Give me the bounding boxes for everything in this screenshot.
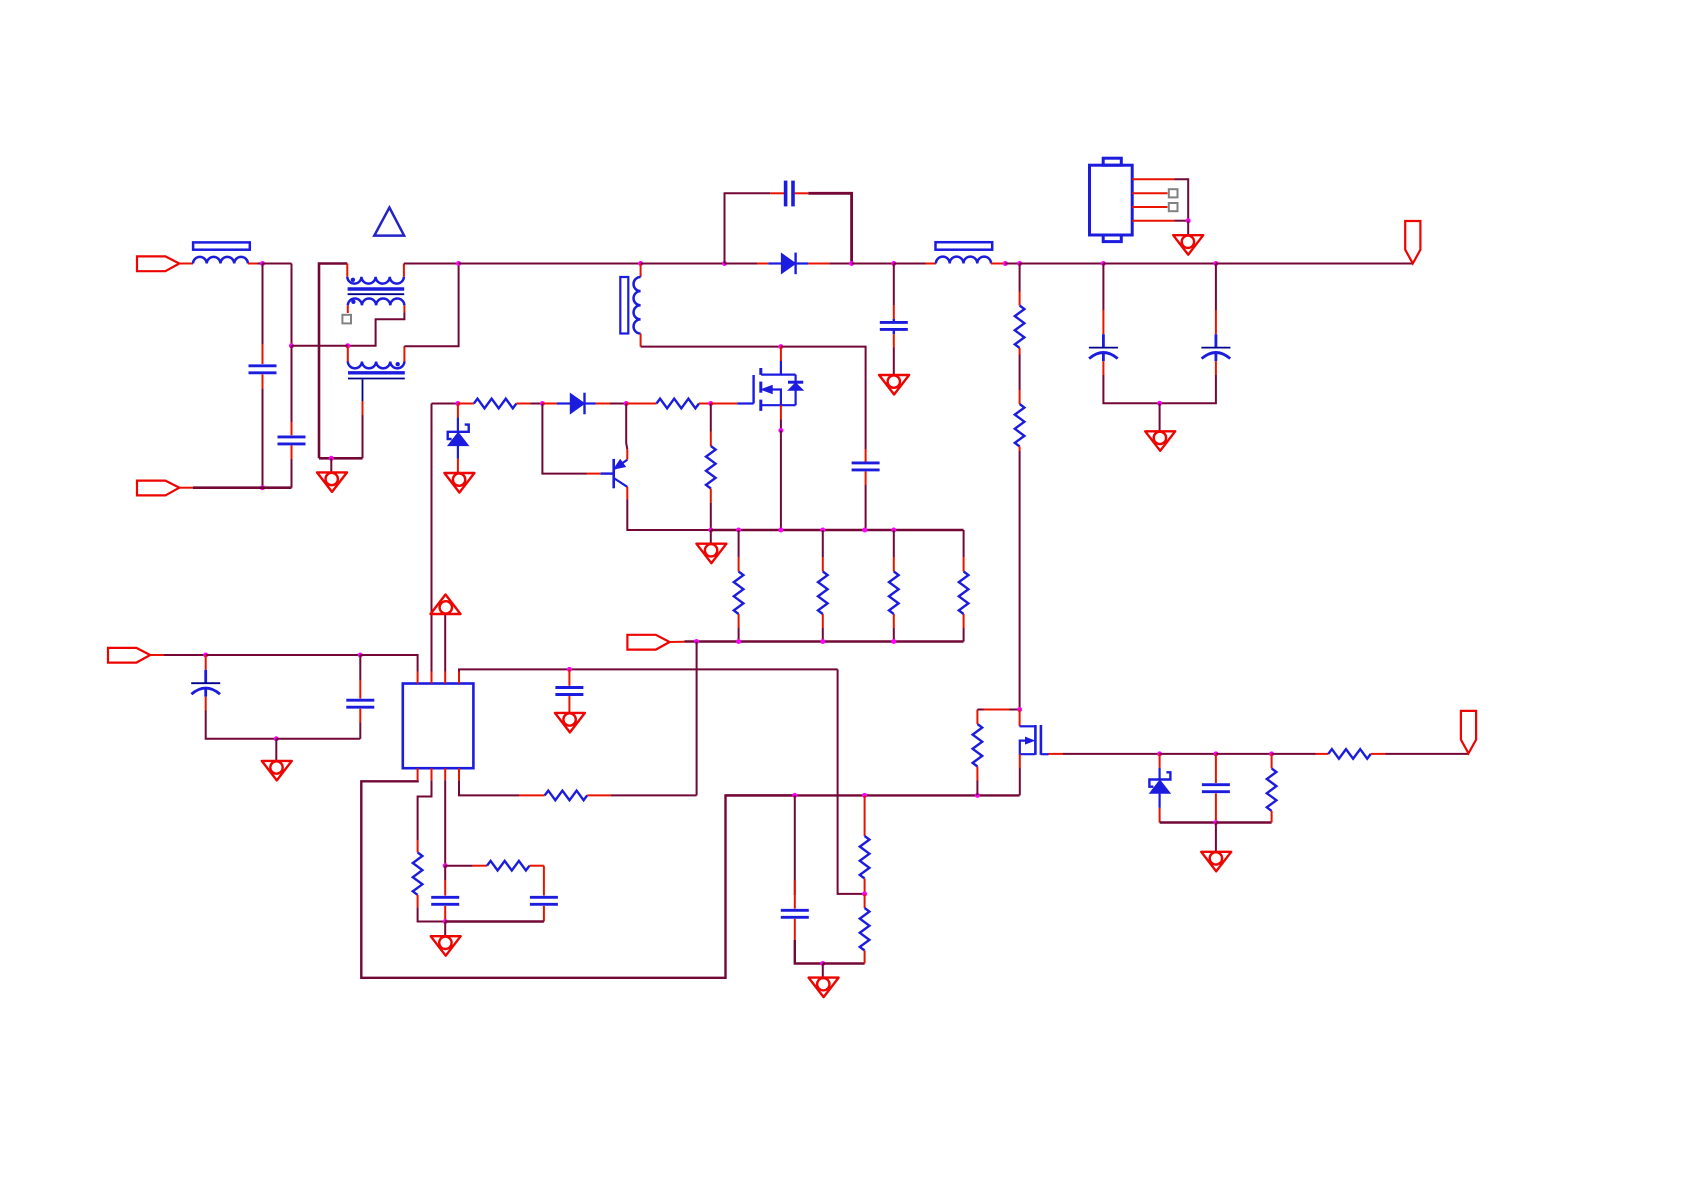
wire T1 bottom rail [641, 346, 781, 348]
diode D1 lead [768, 262, 781, 264]
mosfet Q1 drain lead [761, 361, 795, 375]
wire snubber loop left+top [725, 193, 771, 263]
node B junction [260, 485, 265, 490]
wire choke A to bus node E [404, 263, 459, 265]
wire J1 pin4 to node P [1175, 220, 1189, 222]
node Z3 junction [274, 736, 279, 741]
no-connect square J1 pin3 [1169, 203, 1178, 211]
pin R1 right [516, 403, 530, 405]
wire sense line from bus node M down [1019, 264, 1021, 292]
T3 core lines [348, 371, 405, 374]
IC U1 pin 3 bottom [444, 768, 446, 780]
IC U1 pin 1 top [417, 672, 419, 684]
ground G12 [1201, 852, 1231, 872]
pin R13 top [976, 710, 978, 725]
wire ecap2 to common [1160, 375, 1216, 403]
wire node Z3 to C8 [276, 738, 360, 740]
wire IC pin3 to up ground [444, 614, 446, 672]
wire node K down [893, 264, 895, 306]
pin R11 top [864, 795, 866, 836]
wire rail1 [711, 529, 964, 531]
mosfet Q1 gate lead [737, 402, 753, 404]
transistor Q2 emitter arrow [615, 460, 625, 469]
pin X1 top [262, 344, 264, 364]
wire C7 to bottom wire [206, 711, 277, 739]
pin R9 left [445, 865, 473, 867]
IC U1 pin 1 bottom [417, 768, 419, 780]
node E junction [456, 261, 461, 266]
wire gnd stub [330, 458, 332, 472]
node AM junction (aux common) [1213, 820, 1218, 825]
ground G8 (pointing up) [431, 595, 461, 615]
pin Q1 source [780, 405, 782, 419]
pin C10 bottom [444, 906, 446, 922]
pin R11 bottom [864, 879, 866, 894]
resistor R12 [860, 908, 870, 951]
pin L2 right [991, 263, 1005, 265]
pin C12 top [794, 880, 796, 909]
wire node N to node O [1103, 263, 1216, 265]
connector P6 (aux out, arrow down) [1461, 711, 1476, 754]
node W junction (rail1 / gnd) [708, 528, 713, 533]
wire P3 to node Z1 [164, 654, 206, 656]
shield lead (blue) of T2 core [362, 380, 364, 402]
pin C11 bottom [543, 906, 545, 922]
pin ZD2 bottom [1159, 808, 1161, 823]
wire node Y1 drop to low rail [696, 642, 698, 796]
wire IC pin2b to Rcomp [418, 780, 432, 840]
pin R15 top [1019, 390, 1021, 404]
aux pickup winding T3 [348, 362, 405, 369]
connector P5 (V+ out, arrow down) [1405, 221, 1420, 264]
node AG junction [820, 961, 825, 966]
ground G1 [317, 472, 347, 492]
pin X1 bottom [262, 374, 264, 389]
ground G9 [555, 713, 585, 733]
node Y4 junction [891, 639, 896, 644]
pin wire P3 [150, 654, 164, 656]
IC U1 pin 2 top [431, 672, 433, 684]
wire R10 to node Y1 drop [611, 794, 697, 796]
IC U1 pin 3 top [444, 672, 446, 684]
inductor L2 [936, 257, 991, 264]
wire comp common bottom [445, 920, 544, 922]
node Y1 junction [694, 639, 699, 644]
wire X2 tee down to cap [291, 346, 293, 422]
wire shield return horizontal [319, 457, 363, 460]
ground G4 [1145, 431, 1175, 451]
J1 pin 2 [1132, 192, 1167, 194]
node AC junction (comp common) [443, 919, 448, 924]
zener ZD2 bottom lead [1158, 794, 1160, 808]
mosfet Q3 gate lead [1020, 725, 1036, 727]
pin D1 cathode [808, 263, 829, 265]
pin R14 top [1019, 292, 1021, 306]
pin R12 bottom [864, 951, 866, 964]
wire comp common to ground [444, 922, 446, 937]
pin C7 bottom [205, 697, 207, 711]
wire node P to ground [1187, 221, 1189, 236]
pin R12 top [864, 894, 866, 908]
node Y2 junction [736, 639, 741, 644]
wire C8 to bottom wire [359, 723, 361, 739]
wire bias rail corner down [838, 669, 865, 894]
resistor R5 [818, 572, 828, 615]
node AD junction (cap drop) [792, 793, 797, 798]
wire IC pin4 up and right (bias rail) [459, 669, 838, 671]
wire IC pin3b down [444, 780, 446, 866]
wire X1 chain upper [262, 264, 264, 345]
no-connect square on T2 pin [342, 315, 351, 324]
capacitor X1 [249, 366, 277, 373]
wire R9 to C11 [543, 866, 545, 896]
wire node S down (IC supply riser) [431, 404, 433, 672]
node T junction [540, 401, 545, 406]
node AI junction (Q3 gate node) [1017, 707, 1022, 712]
wire Q2 collector to rail1 [627, 500, 711, 531]
wire winding B right to tee [348, 312, 405, 346]
node S junction (zener tap) [455, 401, 460, 406]
mosfet Q1 body diode [788, 375, 803, 406]
transistor Q2 collector lead [614, 478, 628, 487]
resistor R1 [474, 399, 517, 409]
pin ecap1 top [1102, 310, 1104, 334]
pin R9 right [530, 865, 544, 867]
wire rail2 [685, 640, 964, 642]
ferrite bead body L2 [936, 242, 993, 250]
pin C9 bottom [568, 696, 570, 713]
wire node AL to R16 [1272, 753, 1316, 755]
pin T1 bottom [640, 334, 642, 347]
resistor R6 [889, 572, 899, 615]
capacitor C12 [781, 910, 809, 917]
mosfet Q3 gate bar [1040, 725, 1043, 755]
node AB junction (comp node) [443, 863, 448, 868]
wire snubber top right + right drop [808, 193, 851, 263]
wire node O to output connector P5 [1216, 263, 1413, 265]
wire ecap1 drop [1102, 264, 1104, 311]
pin Q3 bottom [1019, 754, 1021, 768]
wire R14 to R15 [1019, 355, 1021, 391]
gate drive chain: wire corner to zener node [432, 403, 458, 405]
J1 pin 1 [1132, 178, 1174, 180]
T2 winding B pin left [347, 305, 349, 313]
wire node AM to ground [1215, 823, 1217, 852]
pin ecap2 top [1215, 310, 1217, 334]
resistor R13 [973, 724, 983, 767]
wire bus node G to snubber left [641, 263, 725, 265]
wire node R to rail1 [780, 431, 782, 531]
wire X2 bottom to P2 wire [291, 459, 293, 488]
node V junction (gate node) [708, 401, 713, 406]
pin R8 top [417, 840, 419, 852]
node O junction (ecap2) [1213, 261, 1218, 266]
resistor R10 [545, 791, 588, 801]
T2 winding A pin right [403, 264, 405, 277]
wire IC pin4b to sense resistor [459, 780, 519, 795]
mosfet Q3 arrow [1025, 737, 1034, 744]
pin wire P1 to L1 [179, 263, 193, 265]
pin Q3 source red [1049, 753, 1064, 755]
wire C8 drop [359, 655, 361, 680]
wire bus tap to choke top (corner at 319) [319, 264, 347, 459]
pin R8 bottom [417, 895, 419, 908]
wire R8 to comp common [418, 907, 446, 921]
wire node AJ to node AK [1160, 753, 1216, 755]
resistor R14 [1015, 306, 1025, 349]
node AH junction [862, 891, 867, 896]
power delta symbol [374, 208, 404, 236]
T3 pin right [403, 346, 405, 361]
wire bus node E to T1 [459, 263, 641, 265]
pin R13 red low [976, 767, 978, 781]
connector P3 (aux supply in) [108, 648, 150, 663]
node AL junction [1269, 751, 1274, 756]
transistor Q2 base lead [601, 472, 614, 474]
node M junction (sense drop) [1017, 261, 1022, 266]
wire gnd stub rail1 [710, 530, 712, 544]
node I junction (snubber left) [722, 261, 727, 266]
node L junction [1003, 261, 1008, 266]
bank resistor R5 pins [822, 530, 824, 642]
wire ecap1 to common [1103, 375, 1159, 403]
node F junction (aux winding tap) [345, 343, 350, 348]
pin R17 bottom [1271, 811, 1273, 823]
wire Q3 bottom to low rail [1019, 768, 1021, 795]
wire aux common right [1216, 821, 1272, 823]
wire node L to node M [1005, 263, 1019, 265]
node AJ junction [1157, 751, 1162, 756]
capacitor C5 (electrolytic) [1089, 334, 1118, 361]
wire gnd stub AG [822, 964, 824, 978]
transformer T1 shield bar [620, 277, 628, 334]
transistor Q2 emitter lead [614, 460, 628, 470]
diode D2 lead [557, 402, 570, 404]
resistor R3 [706, 446, 716, 489]
capacitor C13 [1202, 785, 1230, 792]
wire D2 to node U [610, 403, 626, 405]
node AA junction (bypass cap) [567, 667, 572, 672]
IC U1 pin 4 bottom [458, 768, 460, 780]
pin R10 right [587, 794, 611, 796]
node U junction [624, 401, 629, 406]
mosfet Q3 source lead right [1041, 753, 1049, 755]
no-connect square J1 pin2 [1169, 189, 1178, 197]
node X1r junction [736, 528, 741, 533]
snubber capacitor C1 (vertical plates) [786, 181, 793, 207]
wire shield riser [362, 415, 364, 458]
pin R17 top [1271, 754, 1273, 769]
inductor L1 [193, 257, 248, 264]
wire R13 top to node AI [977, 709, 1019, 711]
connector P4 (feedback in) [627, 635, 669, 650]
pin C9 top [568, 669, 570, 685]
pin shield (red) [362, 401, 364, 415]
node AK junction [1213, 751, 1218, 756]
mosfet Q3 channel bar [1034, 725, 1037, 755]
wire C12 to bottom common [795, 940, 823, 964]
wire gnd stub Z3 [275, 739, 277, 761]
pin T1 top [640, 264, 642, 278]
wire drain rail to snubber-cap drop [781, 347, 866, 449]
wire low rail right [726, 794, 1020, 796]
node X3r junction [820, 528, 825, 533]
pin R10 left [519, 794, 545, 796]
T3 polarity dot [396, 362, 400, 366]
wire node K to L2 [894, 263, 926, 265]
wire T3 to bus node E [404, 264, 458, 347]
wire R1 to node T [531, 403, 543, 405]
T2 winding A polarity dot [351, 278, 355, 282]
capacitor C11 [530, 897, 558, 904]
pin C3 top [865, 449, 867, 463]
wire R16 to connector P6 [1386, 753, 1469, 755]
wire node AD down to C12 [794, 795, 796, 895]
diode D2 cathode bar [583, 393, 585, 415]
diode D1 [781, 253, 795, 273]
diode D1 cathode bar [794, 253, 796, 275]
wire L1 to bus node A [258, 263, 263, 265]
transistor Q2 base bar [612, 459, 615, 488]
pin Q2 emitter [626, 449, 628, 459]
node X4r junction [862, 528, 867, 533]
node X5r junction [891, 528, 896, 533]
zener ZD1: pin top [457, 404, 459, 418]
diode D2 lead right [585, 402, 596, 404]
ground G11 [809, 978, 839, 998]
capacitor C9 [555, 688, 583, 695]
wire ecap2 drop [1215, 264, 1217, 311]
wire C3 to rail1 [865, 485, 867, 530]
zener diode ZD1 [448, 425, 469, 446]
T2 winding B (lower) [348, 298, 405, 305]
resistor R11 [860, 836, 870, 879]
bank resistor R7 pins [963, 530, 965, 642]
pin C8 top [359, 680, 361, 699]
pin D1 anode [757, 263, 768, 265]
pin Q2 base [587, 473, 601, 475]
pin D2 anode [542, 403, 557, 405]
pin ecap2 bottom [1215, 361, 1217, 375]
node N junction (ecap1) [1101, 261, 1106, 266]
wire J1 pin1 to gnd drop [1175, 179, 1189, 221]
wire node T down to Q2 base [542, 404, 586, 474]
resistor R16 [1328, 749, 1371, 759]
node R junction [778, 428, 783, 433]
resistor R9 [487, 861, 530, 871]
pin C10 top [444, 866, 446, 880]
capacitor C10 [431, 897, 459, 904]
IC U1 pin 4 top [458, 672, 460, 684]
pin aux winding left [347, 346, 349, 362]
wire bus node I to D1 [725, 263, 758, 265]
pin R14 bottom [1019, 348, 1021, 355]
bank resistor R6 pins [893, 530, 895, 642]
node Z1 junction [203, 653, 208, 658]
ground G10 [431, 936, 461, 956]
resistor R2 [657, 399, 700, 409]
pin wire P4 [670, 641, 685, 643]
node AE junction (divider) [862, 793, 867, 798]
wire R15 to node AI [1019, 451, 1021, 710]
pin R2 left [626, 403, 656, 405]
wire C2 to ground [893, 348, 895, 376]
wire node Z1 to node Z2 [206, 654, 361, 656]
pin Q1 drain [780, 347, 782, 361]
wire aux common left [1160, 821, 1216, 823]
J1 pin 4 [1132, 220, 1174, 222]
pin C13 bottom [1215, 793, 1217, 822]
wire tee to node C [292, 345, 348, 347]
transformer T1 winding [634, 277, 641, 334]
pin R1 left [458, 403, 474, 405]
wire IC pin1b feedback loop [361, 780, 795, 978]
capacitor C8 [346, 700, 374, 707]
wire D1 to snubber right node J [829, 263, 851, 265]
connector P2 (line input, bottom left) [137, 481, 179, 496]
pin cap C2 bottom [893, 334, 895, 347]
capacitor C7 (electrolytic) [191, 670, 220, 697]
pin R15 bottom [1019, 447, 1021, 452]
ground G6 [696, 544, 726, 564]
T2 winding A (top) [347, 277, 404, 284]
connector block J1 (top right) [1090, 158, 1133, 241]
pin C3 bottom [865, 472, 867, 486]
node Y3 junction [820, 639, 825, 644]
pin ZD1 bottom [457, 459, 459, 474]
mosfet Q1 body lead [761, 390, 795, 406]
ground G3 [1173, 235, 1203, 255]
node K junction (filter cap tap) [891, 261, 896, 266]
pin X2 bottom [291, 446, 293, 460]
capacitor C3 [852, 463, 880, 470]
ground G2 [879, 375, 909, 395]
pin wire L1 right [248, 263, 258, 265]
IC U1 body [403, 684, 474, 769]
resistor R15 [1015, 404, 1025, 447]
pin ecap1 bottom [1102, 361, 1104, 375]
pin wire P2 [179, 487, 193, 489]
pin R16 left [1316, 753, 1329, 755]
pin C8 bottom [359, 709, 361, 723]
IC U1 pin 2 bottom [431, 768, 433, 780]
pin Q3 gate [1019, 710, 1021, 727]
node H junction (drain tap) [778, 344, 783, 349]
pin C7 top [205, 655, 207, 670]
wire node U down to Q2 emitter [626, 404, 627, 450]
pin R2 right [699, 403, 711, 405]
pin R13 bottom riser [976, 781, 978, 796]
pin Q2 collector [626, 487, 628, 500]
pin Q1 gate red [711, 403, 737, 405]
zener ZD1 bottom lead [457, 446, 459, 459]
mosfet Q1 body arrow [762, 386, 773, 394]
pin C13 top [1215, 754, 1217, 783]
resistor R4 [734, 572, 744, 615]
pin snubber cap right [795, 192, 809, 194]
zener ZD2 top lead [1158, 768, 1160, 780]
mosfet Q3 arrow tail [1020, 741, 1036, 755]
T2 winding B polarity dot [351, 300, 355, 304]
diode D2 [570, 394, 584, 414]
resistor R17 [1267, 768, 1277, 811]
node Z2 junction [358, 653, 363, 658]
node A junction [260, 261, 265, 266]
ground G5 [444, 473, 474, 493]
diode D1 lead right [796, 262, 809, 264]
node D junction (shield gnd tap) [329, 456, 334, 461]
zener diode ZD2 [1149, 772, 1170, 793]
